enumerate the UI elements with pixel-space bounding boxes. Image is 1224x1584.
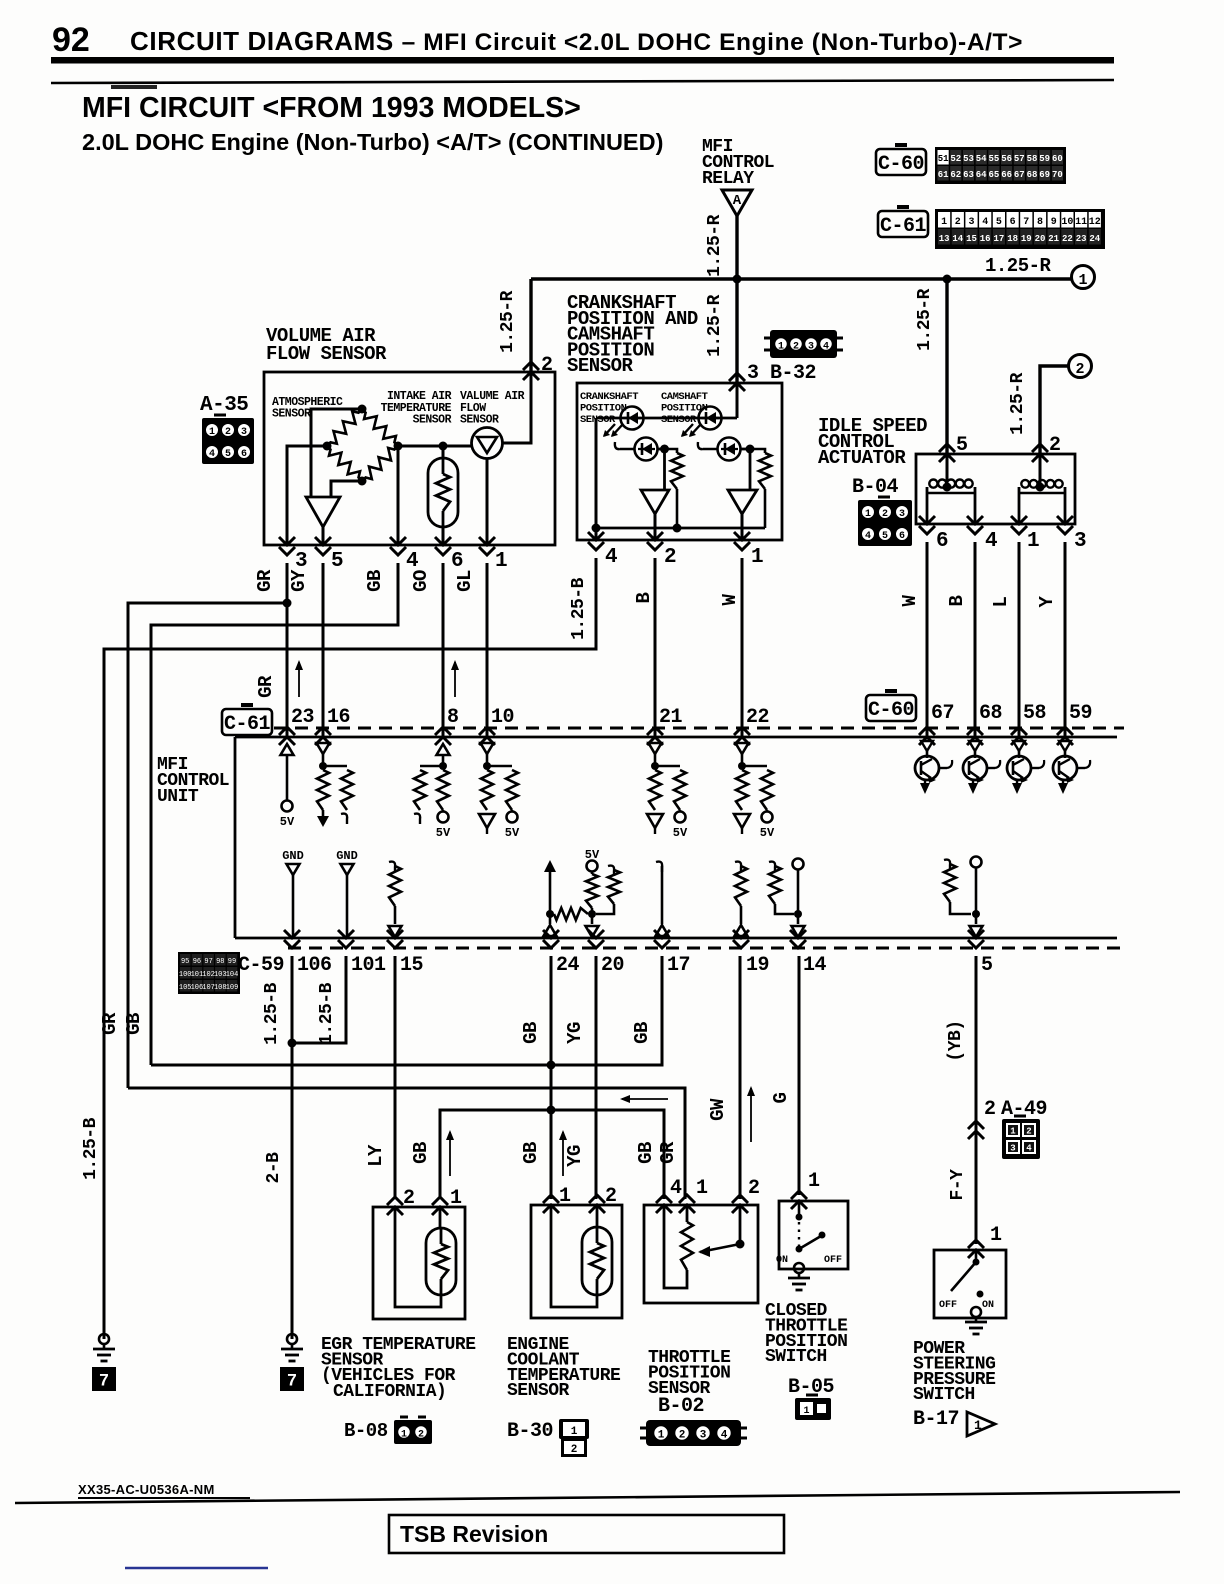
svg-text:10: 10 <box>1061 217 1073 228</box>
svg-text:MFI CIRCUIT <FROM 1993 MODELS>: MFI CIRCUIT <FROM 1993 MODELS> <box>82 92 581 124</box>
wire 1.25-R bus to crank sensor pin 3 <box>735 279 738 383</box>
svg-text:1: 1 <box>974 1418 982 1433</box>
MFI pin19 resistor <box>735 862 741 872</box>
svg-text:99: 99 <box>228 958 236 966</box>
ECT pin 1 <box>543 1195 559 1213</box>
MFI pin 23 <box>279 727 295 745</box>
MFI pin 21 <box>647 727 663 745</box>
svg-text:F-Y: F-Y <box>948 1169 968 1201</box>
svg-text:2: 2 <box>1075 361 1084 378</box>
svg-text:GW: GW <box>707 1098 729 1121</box>
wire cam amp to pin 1 <box>741 514 744 540</box>
svg-text:OFF: OFF <box>824 1255 842 1266</box>
svg-text:CIRCUIT DIAGRAMS – MFI Circuit: CIRCUIT DIAGRAMS – MFI Circuit <2.0L DOH… <box>130 26 1023 56</box>
svg-text:3: 3 <box>808 342 814 353</box>
EGR pin 1 <box>432 1197 448 1215</box>
svg-text:5: 5 <box>981 954 993 977</box>
svg-text:1: 1 <box>865 509 871 520</box>
A-49 pin 2 <box>968 1121 984 1139</box>
crank/cam pin 1 <box>734 532 750 550</box>
crank light arrows <box>604 424 615 436</box>
connector B-17 triangle <box>967 1412 995 1436</box>
wire GR horizontal to TPS pin1 <box>128 1088 685 1199</box>
arrow up GR <box>298 662 300 697</box>
svg-text:106: 106 <box>297 954 332 977</box>
svg-text:1.25-R: 1.25-R <box>705 214 725 277</box>
arrow up GW <box>750 1088 752 1142</box>
crank/cam pin 2 <box>647 532 663 550</box>
svg-text:2: 2 <box>984 1098 996 1121</box>
MFI box bottom edge <box>235 937 1117 940</box>
VAF pin 2 <box>523 362 539 380</box>
svg-text:17: 17 <box>993 234 1004 244</box>
svg-text:1: 1 <box>1010 1127 1016 1137</box>
wire 1.25-R power bus <box>531 277 1072 280</box>
cam LED diode <box>699 407 722 430</box>
svg-text:1: 1 <box>751 546 763 569</box>
MFI pin 20 bottom <box>588 930 604 948</box>
connector B-32 grid <box>770 330 837 358</box>
svg-text:1: 1 <box>808 1170 820 1193</box>
svg-text:51: 51 <box>938 154 949 164</box>
svg-text:55: 55 <box>988 154 999 164</box>
svg-text:2: 2 <box>882 509 888 520</box>
crank sensor pin 3 <box>729 373 745 391</box>
svg-text:2: 2 <box>748 1177 760 1200</box>
PS switch contacts <box>975 1250 978 1260</box>
wire circled2 to ISC pin 2 <box>1040 366 1068 454</box>
svg-text:A-49: A-49 <box>1001 1098 1047 1121</box>
cam load resistor <box>750 449 765 453</box>
MFI pin 15 bottom <box>387 930 403 948</box>
svg-text:98: 98 <box>216 958 224 966</box>
svg-text:2.0L DOHC Engine (Non-Turbo) <: 2.0L DOHC Engine (Non-Turbo) <A/T> (CONT… <box>82 129 663 155</box>
svg-text:5: 5 <box>331 550 343 573</box>
svg-text:CAMSHAFT: CAMSHAFT <box>661 391 708 403</box>
svg-text:109: 109 <box>226 984 239 992</box>
wire GW pin19 to TPS pin2 <box>739 956 742 1199</box>
MFI pin 10 <box>479 727 495 745</box>
svg-text:L: L <box>990 596 1012 607</box>
svg-text:GB: GB <box>631 1022 653 1044</box>
MFI pin58 driver transistor <box>1013 741 1025 751</box>
MFI pin5 network <box>971 857 982 868</box>
svg-text:52: 52 <box>950 154 961 164</box>
CT switch contacts <box>798 1201 801 1215</box>
wire amp to pin 5 <box>322 527 325 545</box>
svg-text:58: 58 <box>1027 154 1038 164</box>
wire GB VAF pin4 to left run <box>151 563 398 1065</box>
svg-text:58: 58 <box>1023 702 1046 725</box>
svg-text:67: 67 <box>931 702 954 725</box>
wire bridge right to temp sensor node <box>398 445 443 448</box>
svg-text:12: 12 <box>1089 217 1101 228</box>
wire GB horizontal to pin17 <box>151 956 662 1065</box>
crank LED diode <box>621 407 644 430</box>
svg-text:54: 54 <box>976 154 987 164</box>
svg-text:5V: 5V <box>280 815 295 829</box>
junction ISC branch <box>943 275 952 284</box>
svg-text:RELAY: RELAY <box>702 169 754 189</box>
svg-text:1.25-R: 1.25-R <box>1008 372 1028 435</box>
sensor ground rail <box>596 527 765 530</box>
svg-text:57: 57 <box>1014 154 1025 164</box>
svg-text:18: 18 <box>1007 234 1018 244</box>
svg-text:4: 4 <box>721 1430 728 1442</box>
svg-text:B-17: B-17 <box>913 1408 959 1431</box>
svg-text:B: B <box>946 595 968 606</box>
svg-text:21: 21 <box>659 706 683 729</box>
svg-text:66: 66 <box>1001 170 1012 180</box>
svg-text:2: 2 <box>541 354 553 377</box>
svg-text:CRANKSHAFT: CRANKSHAFT <box>580 391 638 403</box>
svg-text:SENSOR: SENSOR <box>460 414 499 427</box>
wire 1.25-B pin101 joins <box>292 956 346 1043</box>
connector A-35 pin grid <box>202 418 254 464</box>
crank/cam sensor box <box>577 383 782 540</box>
svg-text:2: 2 <box>571 1444 578 1456</box>
svg-text:5: 5 <box>956 434 968 457</box>
MFI box left edge <box>234 737 237 938</box>
cam photodiode <box>718 438 741 461</box>
TPS pin 2 <box>732 1195 748 1213</box>
wire GR VAF pin3 to MFI pin23 <box>286 563 289 737</box>
svg-text:4: 4 <box>823 342 829 353</box>
cam amp triangle <box>749 449 752 490</box>
svg-text:61: 61 <box>938 170 949 180</box>
svg-text:1: 1 <box>1027 530 1039 553</box>
svg-text:1.25-B: 1.25-B <box>81 1117 101 1180</box>
svg-text:GY: GY <box>288 569 310 592</box>
svg-text:2: 2 <box>403 1187 415 1210</box>
svg-text:15: 15 <box>966 234 977 244</box>
svg-text:G: G <box>770 1092 792 1103</box>
TPS pin 4 <box>656 1195 672 1213</box>
MFI pin 16 <box>315 727 331 745</box>
crank photodiode <box>635 438 658 461</box>
svg-text:68: 68 <box>979 702 1002 725</box>
connector B-02 grid <box>646 1420 741 1446</box>
svg-text:60: 60 <box>1052 154 1063 164</box>
arrow up GB ECT <box>562 1132 564 1176</box>
bridge node right <box>394 442 403 451</box>
cam light arrows <box>682 424 693 436</box>
EGR sensor box <box>373 1207 465 1319</box>
svg-text:1: 1 <box>450 1187 462 1210</box>
connector C-59 grid <box>178 952 240 994</box>
svg-text:92: 92 <box>52 21 90 59</box>
svg-text:3: 3 <box>1074 530 1086 553</box>
ISC pin 1 <box>1011 516 1027 534</box>
MFI pin 67 <box>919 727 935 745</box>
svg-text:B-04: B-04 <box>852 476 899 499</box>
EGR pin 2 <box>387 1197 403 1215</box>
svg-text:YG: YG <box>564 1145 586 1167</box>
ECT capsule resistor <box>582 1227 612 1295</box>
svg-text:56: 56 <box>1001 154 1012 164</box>
junction GR branch <box>283 599 292 608</box>
crank load resistor <box>665 449 678 453</box>
wire node to vaf circle <box>443 445 473 448</box>
svg-text:Y: Y <box>1036 595 1058 607</box>
svg-text:9: 9 <box>1051 217 1057 228</box>
svg-text:10: 10 <box>491 706 514 729</box>
svg-text:B-32: B-32 <box>770 362 816 385</box>
svg-text:7: 7 <box>1023 217 1029 228</box>
svg-text:4: 4 <box>406 550 418 573</box>
svg-text:1: 1 <box>559 1185 571 1208</box>
ISC pin 4 <box>967 516 983 534</box>
wire 1.25-R bus to ISC pin 5 <box>945 279 948 454</box>
VAF pin 1 <box>479 537 495 555</box>
EGR internal wires <box>439 1207 442 1228</box>
junction GB/pin24 wire <box>547 1061 556 1070</box>
cam photodiode base stub <box>698 442 717 449</box>
wire YB pin5 to PS switch <box>975 956 978 1244</box>
svg-text:24: 24 <box>556 954 580 977</box>
svg-text:64: 64 <box>976 170 987 180</box>
junction 1.25-B <box>288 1039 297 1048</box>
bridge resistor top-right <box>362 409 398 446</box>
svg-text:2: 2 <box>955 217 961 228</box>
svg-text:70: 70 <box>1052 170 1063 180</box>
ISC pin 2 <box>1032 444 1048 462</box>
wire vaf circle to pin 1 <box>486 458 489 545</box>
svg-text:CALIFORNIA): CALIFORNIA) <box>333 1382 446 1402</box>
svg-text:B-02: B-02 <box>658 1395 704 1418</box>
connector B-04 grid <box>858 500 912 546</box>
svg-text:8: 8 <box>1037 217 1043 228</box>
bridge resistor bottom-left <box>327 446 362 481</box>
svg-text:1: 1 <box>803 1406 809 1417</box>
MFI pin67 driver transistor <box>921 741 933 751</box>
svg-text:62: 62 <box>950 170 961 180</box>
svg-text:4: 4 <box>982 217 988 228</box>
svg-text:6: 6 <box>936 530 948 553</box>
svg-text:B: B <box>633 592 655 603</box>
VAF pin 3 <box>279 537 295 555</box>
svg-text:1: 1 <box>990 1224 1002 1247</box>
wire 1.25-B pin106 down <box>291 956 294 1339</box>
PS switch ground <box>971 1307 981 1317</box>
svg-text:6: 6 <box>241 449 247 460</box>
svg-text:3: 3 <box>1010 1144 1015 1154</box>
wire L ISC pin1 to MFI pin58 <box>1018 542 1021 737</box>
svg-text:C-61: C-61 <box>224 713 271 736</box>
ECT internal wires <box>596 1205 599 1227</box>
svg-text:5: 5 <box>996 217 1002 228</box>
wire bridge top to amp <box>311 409 362 497</box>
svg-text:2: 2 <box>664 546 676 569</box>
node circled 2 <box>1069 355 1092 378</box>
svg-text:ACTUATOR: ACTUATOR <box>818 447 906 469</box>
svg-text:GB: GB <box>520 1142 542 1164</box>
svg-text:59: 59 <box>1069 702 1092 725</box>
wire 1.25-R relay to bus <box>735 216 738 279</box>
svg-text:13: 13 <box>939 234 950 244</box>
svg-text:UNIT: UNIT <box>157 787 199 807</box>
svg-text:ON: ON <box>982 1300 994 1311</box>
svg-text:1: 1 <box>401 1430 407 1441</box>
wire Y ISC pin3 to MFI pin59 <box>1064 542 1067 737</box>
MFI pin21 network <box>649 743 662 754</box>
svg-text:22: 22 <box>1062 234 1073 244</box>
svg-text:1.25-R: 1.25-R <box>985 255 1052 277</box>
svg-text:3: 3 <box>968 217 974 228</box>
connector A-49 grid <box>1002 1119 1040 1159</box>
MFI pin8 network <box>437 744 450 755</box>
svg-text:C-59: C-59 <box>238 954 284 977</box>
wire B crank pin2 to MFI pin21 <box>654 558 657 737</box>
wire GB pin24 to ECT pin1 <box>550 956 553 1199</box>
svg-text:1.25-B: 1.25-B <box>569 577 589 640</box>
svg-text:22: 22 <box>746 706 769 729</box>
svg-text:59: 59 <box>1039 154 1050 164</box>
svg-text:6: 6 <box>451 550 463 573</box>
CT switch ground <box>794 1263 804 1273</box>
svg-text:1.25-R: 1.25-R <box>498 290 518 353</box>
svg-text:23: 23 <box>1076 234 1087 244</box>
svg-text:SWITCH: SWITCH <box>913 1385 975 1405</box>
svg-text:7: 7 <box>99 1371 108 1390</box>
wire node to capsule <box>442 446 445 458</box>
MFI pin23 5V pull <box>281 744 294 755</box>
svg-text:104: 104 <box>226 971 239 979</box>
LED rail wire <box>596 417 737 420</box>
svg-text:1: 1 <box>696 1177 708 1200</box>
ECT pin 2 <box>589 1195 605 1213</box>
svg-text:19: 19 <box>746 954 769 977</box>
svg-text:GB: GB <box>520 1022 542 1044</box>
svg-text:4: 4 <box>209 449 215 460</box>
MFI pin24 network <box>544 860 556 872</box>
MFI pin16 input network <box>317 743 330 754</box>
svg-text:GL: GL <box>454 570 476 592</box>
wire pin3 down to LED rail <box>736 383 739 418</box>
svg-text:GR: GR <box>255 675 277 698</box>
svg-text:LY: LY <box>365 1144 387 1167</box>
svg-text:17: 17 <box>667 954 690 977</box>
wire YG pin20 to ECT pin2 <box>595 956 598 1199</box>
svg-text:15: 15 <box>400 954 423 977</box>
MFI pin 68 <box>967 727 983 745</box>
bridge node top <box>358 405 367 414</box>
footer rule <box>15 1492 1180 1503</box>
arrow up GO <box>454 662 456 697</box>
bridge node bottom <box>358 477 367 486</box>
svg-text:96: 96 <box>193 958 201 966</box>
svg-text:1.25-R: 1.25-R <box>705 294 725 357</box>
MFI pin 24 bottom <box>543 930 559 948</box>
svg-text:5V: 5V <box>673 826 688 840</box>
svg-text:4: 4 <box>670 1177 682 1200</box>
scan artifact blue line <box>125 1567 268 1569</box>
TSB revision box <box>389 1515 784 1553</box>
header thick rule <box>51 57 1114 64</box>
wire GB sensor-ground horizontal <box>440 1110 664 1199</box>
wire 1.25-B crank pin4 to left run <box>104 558 596 1339</box>
MFI pin 17 bottom <box>654 930 670 948</box>
arrow up GB EGR <box>449 1132 451 1176</box>
TPS pin 1 <box>679 1195 695 1213</box>
svg-text:20: 20 <box>1035 234 1046 244</box>
svg-text:3: 3 <box>700 1430 707 1442</box>
svg-text:2: 2 <box>1026 1127 1031 1137</box>
svg-text:14: 14 <box>803 954 827 977</box>
svg-text:19: 19 <box>1021 234 1032 244</box>
svg-text:C-61: C-61 <box>880 215 927 238</box>
svg-text:5V: 5V <box>760 826 775 840</box>
svg-text:(YB): (YB) <box>946 1020 966 1061</box>
svg-text:95: 95 <box>181 958 189 966</box>
wire LED rail left down <box>595 418 598 528</box>
ground 7 far left <box>99 1334 109 1344</box>
svg-text:67: 67 <box>1014 170 1025 180</box>
MFI pin 19 bottom <box>733 930 749 948</box>
svg-text:A: A <box>733 193 742 209</box>
svg-text:SENSOR: SENSOR <box>507 1381 570 1401</box>
svg-text:GND: GND <box>336 849 358 863</box>
svg-text:ON: ON <box>776 1255 788 1266</box>
wire bridge left to pin 3 <box>287 446 327 545</box>
MFI pin 8 <box>435 727 451 745</box>
ISC actuator box <box>916 454 1075 524</box>
svg-text:1: 1 <box>941 217 947 228</box>
svg-text:1.25-B: 1.25-B <box>262 982 282 1045</box>
wire LY pin15 to EGR pin2 <box>394 956 397 1199</box>
MFI pin 101 bottom <box>338 930 354 948</box>
ECT sensor box <box>531 1205 622 1318</box>
junction GB sensor-ground <box>547 1106 556 1115</box>
svg-text:B-08: B-08 <box>344 1420 388 1442</box>
wire crank amp to pin 2 <box>654 514 657 540</box>
svg-text:C-60: C-60 <box>878 153 924 176</box>
svg-text:16: 16 <box>327 706 350 729</box>
connector C-60 pin grid <box>935 147 1066 184</box>
wire G pin14 to closed throttle switch <box>798 956 801 1195</box>
wire rail to pin 4 <box>595 528 598 540</box>
MFI pin15 resistor <box>389 862 395 872</box>
svg-text:4: 4 <box>985 530 997 553</box>
bridge resistor top-left <box>327 409 362 446</box>
svg-text:4: 4 <box>865 531 871 542</box>
svg-text:1: 1 <box>778 342 784 353</box>
svg-text:68: 68 <box>1027 170 1038 180</box>
MFI control relay triangle A <box>722 190 752 216</box>
wire W crank pin1 to MFI pin22 <box>741 558 744 737</box>
junction temp sensor <box>439 442 448 451</box>
svg-text:23: 23 <box>291 706 314 729</box>
svg-text:65: 65 <box>988 170 999 180</box>
cam output junction <box>740 448 750 451</box>
connector C-61 label <box>878 211 928 237</box>
wire GY VAF pin5 to MFI pin16 <box>322 563 325 737</box>
CT switch box <box>779 1201 848 1269</box>
svg-text:GR: GR <box>657 1141 679 1164</box>
svg-text:8: 8 <box>447 706 459 729</box>
svg-text:B-30: B-30 <box>507 1420 553 1443</box>
MFI pin10 network <box>481 743 494 754</box>
VAF pin 4 <box>390 537 406 555</box>
connector B-05 grid <box>795 1398 831 1420</box>
svg-text:GR: GR <box>254 569 276 592</box>
svg-text:SENSOR: SENSOR <box>272 408 311 421</box>
MFI pin59 driver transistor <box>1059 741 1071 751</box>
MFI top dashed interface line <box>274 727 1124 730</box>
crank/cam pin 4 <box>588 532 604 550</box>
svg-text:SENSOR: SENSOR <box>567 355 634 377</box>
svg-text:GB: GB <box>123 1013 145 1035</box>
